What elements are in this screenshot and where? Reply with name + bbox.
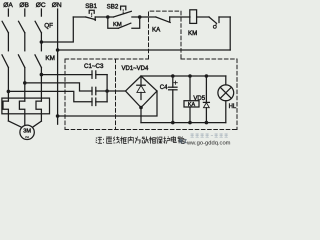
wire control return to N [58,49,231,51]
capacitor C3 [92,98,107,105]
label SB1 [85,3,97,10]
注 [96,137,102,144]
node VD5 cathode [205,74,209,78]
node cap tap phase C [40,73,44,77]
phase label ØC [36,2,46,9]
node cap tap phase A [7,90,11,94]
wire control right drop [229,17,231,50]
phase label ØB [19,2,29,9]
breaker QF pole A [2,21,8,33]
label QF [44,22,53,29]
svg-text:VD5: VD5 [193,96,205,102]
pushbutton SB2 start [108,6,140,17]
watermark line 2 [186,141,231,147]
neutral label ØN [52,2,62,9]
wire control supply tap [41,17,73,42]
node bridge minus vertex [139,106,143,110]
label KM auxiliary [113,22,122,28]
node KA coil minus [188,121,192,125]
wire phase B to C2 [25,83,92,91]
contactor KM main pole B [18,55,24,101]
thermal relay FR element A [3,101,8,121]
capacitor C1 [92,71,107,78]
node C4 minus [171,121,175,125]
svg-text:KM: KM [188,30,197,37]
pushbutton SB1 stop [73,10,108,20]
内 [128,136,133,143]
relay contact KA [140,17,190,23]
label VD5 [193,96,205,102]
svg-text:KA: KA [188,102,196,108]
线 [113,137,119,144]
node control tap on phase C [40,40,44,44]
svg-text:ØC: ØC [36,2,46,9]
caption note text (注:虚线框内为缺相保护电路 drawn as strokes) [96,136,186,143]
路 [178,137,185,144]
contactor KM auxiliary contact [108,17,140,28]
wire phase A QF to KM [7,33,9,51]
node caps common [105,89,109,93]
svg-text:KM: KM [113,22,122,28]
label KA contact [152,27,161,34]
svg-text:QF: QF [44,22,53,29]
wire caps common vertical [106,75,108,102]
watermark line 1 (CJK drawn as light blocks) [191,133,228,137]
缺 [142,137,148,144]
node cap tap phase B [23,81,27,85]
svg-text:SB2: SB2 [107,4,119,11]
label KM main contacts [45,55,55,62]
bridge rectifier VD1~VD4 [126,76,158,108]
保 [157,137,163,144]
contactor KM main pole A [2,55,8,101]
wire phase A to C3 [8,91,92,101]
: [103,139,105,143]
svg-text:SB1: SB1 [85,3,97,10]
为 [135,137,141,144]
label HL [229,104,237,110]
contactor coil KM [190,10,197,24]
svg-text:C1~C3: C1~C3 [84,63,104,70]
thermal relay FR heater box [2,98,50,114]
wire DC plus rail [141,75,226,77]
phase label ØA [3,2,13,9]
相 [149,137,155,144]
lamp HL [218,76,234,123]
relay coil KA [184,76,199,123]
protection circuit dashed boundary [65,11,237,129]
node SB2 left junction [106,15,110,19]
neutral wire N vertical [57,9,59,124]
svg-text:KA: KA [152,27,161,34]
svg-text:VD1~VD4: VD1~VD4 [122,66,150,72]
node control return on N [56,48,60,52]
node bridge AC on N [56,114,60,118]
thermal relay FR element B [19,101,24,125]
wire FR to motor left [8,121,21,127]
svg-text:KM: KM [45,55,55,62]
svg-text:ØA: ØA [3,2,13,9]
motor 3M [20,125,34,141]
wire phase A supply [7,9,9,16]
wire coil to FR contact [197,16,209,18]
svg-text:ØN: ØN [52,2,62,9]
wire DC minus rail [141,122,226,124]
svg-text:HL: HL [229,104,237,110]
wire FR to motor right [33,121,42,127]
watermark logo glyphs [180,139,188,143]
护 [164,137,170,144]
svg-text:ØB: ØB [19,2,29,9]
label C4 [160,85,168,91]
node VD5 anode [205,121,209,125]
thermal relay FR contact [209,17,230,28]
wire common node to bridge [107,90,125,92]
node SB2 right junction [138,15,142,19]
svg-text:~: ~ [25,134,29,141]
svg-text:ww.go-gddq.com: ww.go-gddq.com [186,141,231,147]
capacitor C4 [169,76,178,123]
label C1~C3 [84,63,104,70]
wire N to bridge AC input [58,91,157,116]
breaker QF pole C [35,9,41,51]
label KM coil [188,30,197,37]
node C4 plus [171,74,175,78]
wire bridge minus drop [140,108,142,123]
svg-text:C4: C4 [160,85,168,91]
diode VD5 [203,76,209,123]
虚 [106,136,112,143]
capacitor C2 [92,87,107,94]
wire phase C to C1 [41,74,92,76]
label SB2 [107,4,119,11]
breaker QF pole B [19,9,25,51]
电 [171,136,176,142]
框 [120,137,126,144]
label VD1~VD4 [122,66,150,72]
thermal relay FR element C [36,101,41,121]
node KA coil plus [188,74,192,78]
contactor KM main pole C [35,55,41,101]
